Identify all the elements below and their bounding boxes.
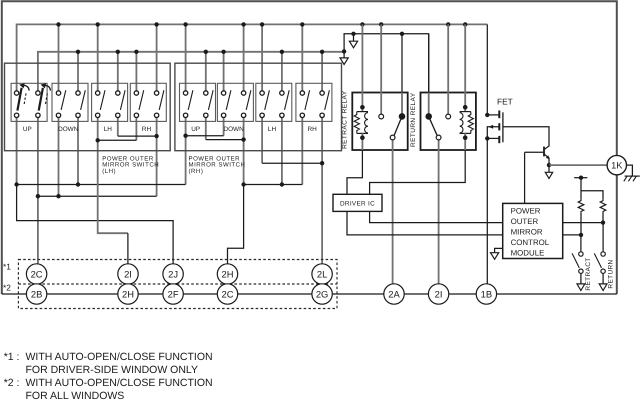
wire bus to switch RH2 (LH) xyxy=(156,24,158,90)
connector 2I (row 1) xyxy=(118,264,138,284)
connector 2B (row 2) xyxy=(26,284,46,304)
junction bus1 x=448.2 xyxy=(446,22,450,26)
svg-text:DOWN: DOWN xyxy=(58,126,79,133)
coil top junction RETRACT RELAY xyxy=(360,105,365,110)
svg-text::: : xyxy=(17,377,20,389)
svg-text::: : xyxy=(17,351,20,363)
svg-text:RETRACT: RETRACT xyxy=(585,257,592,290)
wire bus to switch D2 (RH) xyxy=(243,24,245,90)
wire line B xyxy=(38,195,157,197)
relay contacts RETURN RELAY xyxy=(447,93,449,115)
wire R2 to wire A junction xyxy=(602,212,604,222)
svg-text:RETRACT RELAY: RETRACT RELAY xyxy=(342,90,349,149)
junction bus3 x=402.0 xyxy=(400,32,404,36)
connector 2C (row 2) xyxy=(217,284,237,304)
switch contact UP1 (RH box) xyxy=(183,91,187,95)
junction link (16.6,184.5) xyxy=(14,182,18,186)
sub-box DOWN switch at x=233.6 xyxy=(217,83,253,121)
wire stub bus2 end to ground arrow xyxy=(343,51,345,58)
wire module top to transistor base xyxy=(524,152,526,203)
connector 2A (row 2) xyxy=(384,284,404,304)
wire bus2 (switch common) xyxy=(38,52,344,91)
wire link T LH1-RH2 (RH box) xyxy=(262,162,322,164)
wire emitter to 1K xyxy=(549,164,608,166)
junction emitter node xyxy=(547,163,551,167)
dashed separator line xyxy=(18,283,337,285)
ground arrow (module) xyxy=(491,253,499,260)
wire stub to ground arrow xyxy=(353,34,355,42)
svg-text:2L: 2L xyxy=(317,268,327,279)
svg-text:2H: 2H xyxy=(122,288,134,299)
relay coil RETRACT RELAY xyxy=(361,93,363,112)
transistor base lead xyxy=(525,151,544,153)
relay box RETRACT RELAY xyxy=(352,93,407,151)
coil bottom junction RETRACT RELAY xyxy=(360,135,365,140)
FET source lead xyxy=(487,137,499,139)
wire bus to switch D1 (LH) xyxy=(58,24,60,90)
svg-text:*2: *2 xyxy=(3,282,11,292)
switch contact LH2 (LH box) xyxy=(116,91,120,95)
svg-text:DOWN: DOWN xyxy=(223,126,244,133)
connector 1K ground point xyxy=(607,155,626,174)
svg-text:FOR DRIVER-SIDE WINDOW ONLY: FOR DRIVER-SIDE WINDOW ONLY xyxy=(26,364,198,376)
sub-box RH switch at x=146.5 xyxy=(130,83,166,121)
transistor Q1 (NPN) xyxy=(543,147,545,157)
ground arrow (RETURN) xyxy=(599,284,607,291)
wire retract coil to driver IC xyxy=(347,150,362,194)
junction link (185.6,135.7) xyxy=(183,134,187,138)
wire ground loop: left border, top border, down to 1K xyxy=(2,1,617,294)
svg-text:RETURN: RETURN xyxy=(608,259,615,288)
connector 2H (row 2) xyxy=(118,284,138,304)
wire link LH2-RH2 (LH box) xyxy=(118,135,157,137)
wire link LH1-RH1 (LH box) xyxy=(98,139,137,141)
wire bus to switch D1 (RH) xyxy=(223,52,225,91)
FET drain lead xyxy=(487,114,499,116)
wire 1K to chassis ground xyxy=(627,165,633,176)
wire emitter down xyxy=(548,158,550,165)
wire bus to switch LH2 (LH) xyxy=(117,52,119,91)
switch contact RH1 (LH box) xyxy=(134,91,138,95)
svg-text:2I: 2I xyxy=(124,268,132,279)
junction R1 / wire B xyxy=(579,233,583,237)
box POWER OUTER MIRROR SWITCH (LH) xyxy=(5,63,171,151)
wire branch to R2 xyxy=(581,191,603,200)
ground arrow (bus3) xyxy=(349,41,357,48)
svg-text:2H: 2H xyxy=(222,268,234,279)
wire UP1 RH down to line A xyxy=(185,118,187,185)
junction bus2 x=136.4 xyxy=(134,50,138,54)
wire tap to R1 xyxy=(580,178,582,200)
svg-text:POWER: POWER xyxy=(511,206,541,215)
sub-box UP switch at x=195.7 xyxy=(180,83,216,121)
box POWER OUTER MIRROR CONTROL MODULE xyxy=(503,203,563,258)
junction FET drain xyxy=(485,113,489,117)
relay coil RETURN RELAY xyxy=(464,93,466,112)
switch contact RH1 (RH box) xyxy=(300,91,304,95)
wire bus to switch LH1 (RH) xyxy=(261,24,263,90)
svg-text:(RH): (RH) xyxy=(189,168,204,175)
junction bus2 x=322.1 xyxy=(320,50,324,54)
junction link (156.6,136.1) xyxy=(154,134,158,138)
switch contact UP2 (LH box) xyxy=(36,91,40,95)
switch contact UP2 (RH box) xyxy=(204,91,208,95)
wire bus to switch UP2 (RH) xyxy=(205,52,207,91)
svg-text:FOR ALL WINDOWS: FOR ALL WINDOWS xyxy=(26,390,125,402)
svg-text:2A: 2A xyxy=(388,288,400,299)
wire LH2 LH down to link xyxy=(117,118,119,137)
svg-text:MIRROR: MIRROR xyxy=(511,228,543,237)
wire bus1 to retract coil xyxy=(361,24,363,92)
coil top junction RETURN RELAY xyxy=(463,105,468,110)
box DRIVER IC xyxy=(333,194,382,211)
wire FET gate to transistor collector xyxy=(503,127,549,146)
wire LH1 RH down to link T xyxy=(261,118,263,164)
wire bus to switch RH1 (LH) xyxy=(135,52,137,91)
wire RH1 RH down to segment S xyxy=(301,118,303,185)
switch contact UP1 (LH box) xyxy=(14,91,18,95)
wire FET source to connector 1B xyxy=(486,138,488,283)
connector 2C (row 1) xyxy=(26,264,46,284)
junction bus1 x=156.6 xyxy=(154,22,158,26)
wire drop into connector 2I xyxy=(127,233,129,264)
svg-text:2I: 2I xyxy=(435,288,443,299)
junction bus2 x=281.9 xyxy=(280,50,284,54)
svg-text:2F: 2F xyxy=(168,288,179,299)
junction link (243.6,139.6) xyxy=(241,137,245,141)
svg-text:RH: RH xyxy=(142,126,152,133)
wire to RETRACT switch xyxy=(580,235,582,252)
wire bottom bus through connector row 2 xyxy=(2,293,617,295)
wire bus3 to relay NC contacts xyxy=(344,34,429,114)
svg-text:WITH AUTO-OPEN/CLOSE FUNCTION: WITH AUTO-OPEN/CLOSE FUNCTION xyxy=(26,377,213,389)
wire bus1 to FET drain xyxy=(486,24,488,115)
junction bus1 x=465.2 xyxy=(463,22,467,26)
connector 2L (row 1) xyxy=(312,264,332,284)
svg-text:LH: LH xyxy=(268,126,277,133)
wire bus3 to return blade contact xyxy=(428,34,430,93)
FET body lead xyxy=(487,127,499,139)
svg-text:2C: 2C xyxy=(222,288,234,299)
wire bus1 to retract NO contact xyxy=(380,24,382,92)
junction bus3 x=353.5 xyxy=(351,32,355,36)
sub-box LH switch at x=107.8 xyxy=(92,83,128,121)
junction link (97.7,140.3) xyxy=(96,138,100,142)
wire D2 RH down to segment S xyxy=(243,118,245,185)
wire to RETURN switch xyxy=(602,223,604,252)
wire D2 LH down to line A xyxy=(77,118,79,185)
wire RH2 LH down to line B xyxy=(156,118,158,197)
svg-text:*1: *1 xyxy=(3,262,11,272)
sub-box LH switch at x=272.0 xyxy=(256,83,292,121)
wire bus1 to return coil xyxy=(464,24,466,92)
svg-text:2J: 2J xyxy=(168,268,178,279)
svg-text:2C: 2C xyxy=(31,268,43,279)
svg-text:*1: *1 xyxy=(4,351,14,363)
wire D1 LH down to line B xyxy=(58,118,60,197)
svg-text:RH: RH xyxy=(307,126,317,133)
junction R2 / wire A xyxy=(601,220,605,224)
switch contact D2 (RH box) xyxy=(241,91,245,95)
svg-text:(LH): (LH) xyxy=(102,168,116,175)
svg-text:MODULE: MODULE xyxy=(511,249,545,258)
switch contact RH2 (LH box) xyxy=(154,91,158,95)
junction bus1 x=381.2 xyxy=(379,22,383,26)
wire return coil to driver IC xyxy=(370,150,466,194)
wire bus to switch LH1 (LH) xyxy=(97,24,99,90)
junction bus2 x=78.0 xyxy=(76,50,80,54)
connector 2J (row 1) xyxy=(163,264,183,284)
switch contact D1 (RH box) xyxy=(221,91,225,95)
junction link (322.1,163.2) xyxy=(320,161,324,165)
connector 2H (row 1) xyxy=(217,264,237,284)
svg-text:FET: FET xyxy=(497,97,513,107)
switch contact D1 (LH box) xyxy=(56,91,60,95)
wire RH2 RH down to connector 2L xyxy=(321,118,323,264)
junction FET source xyxy=(485,136,489,140)
connector 2I (row 2) xyxy=(428,284,448,304)
wire segment S drop to connector 2H xyxy=(228,185,244,264)
wire link UP2-D2 (RH box) xyxy=(206,139,244,141)
svg-text:CONTROL: CONTROL xyxy=(511,238,550,247)
junction bus1 x=302.3 xyxy=(300,22,304,26)
junction bus1 x=362.4 xyxy=(360,22,364,26)
wire bus1 to return NO contact xyxy=(447,24,449,92)
junction link (281.9,184.5) xyxy=(280,182,284,186)
wire bus to switch LH2 (RH) xyxy=(281,52,283,91)
wire RETRACT to ground arrow xyxy=(580,273,582,284)
switch contact RH2 (RH box) xyxy=(320,91,324,95)
junction bus1 x=58.5 xyxy=(56,22,60,26)
junction link (78.0,184.5) xyxy=(76,182,80,186)
switch contact LH2 (RH box) xyxy=(280,91,284,95)
wire R1 to wire B junction xyxy=(580,212,582,235)
switch contact D2 (LH box) xyxy=(76,91,80,95)
junction bus1 x=185.6 xyxy=(183,22,187,26)
wire 1K bottom to bottom bus xyxy=(616,175,618,294)
ground arrow (bus2 end) xyxy=(340,58,348,65)
wire bus to switch UP1 (RH) xyxy=(185,24,187,90)
svg-text:LH: LH xyxy=(104,126,113,133)
wire return common to connector 2I xyxy=(438,150,440,284)
power tap symbol (dot with bar) xyxy=(574,177,587,179)
wire bus3 to retract blade contact xyxy=(401,34,403,93)
wire LH1 LH down to link xyxy=(97,118,99,141)
svg-text:UP: UP xyxy=(23,126,32,133)
svg-text:DRIVER IC: DRIVER IC xyxy=(340,200,375,207)
junction link (243.6,184.5) xyxy=(241,182,245,186)
wire retract common to connector 2A xyxy=(392,150,394,284)
switch contact LH1 (RH box) xyxy=(260,91,264,95)
svg-text:2B: 2B xyxy=(31,288,42,299)
relay contacts RETRACT RELAY xyxy=(380,93,382,115)
chassis ground xyxy=(625,175,640,177)
junction bus2 end xyxy=(342,49,346,53)
svg-text:OUTER: OUTER xyxy=(511,217,539,226)
junction bus1 x=262.1 xyxy=(260,22,264,26)
coil bottom junction RETURN RELAY xyxy=(463,135,468,140)
svg-text:*2: *2 xyxy=(4,377,14,389)
wire bus1 (battery feed to switch contacts) xyxy=(17,24,488,90)
connector 1B (row 2) xyxy=(476,284,496,304)
ground arrow (emitter) xyxy=(545,172,552,178)
wire stub emitter ground arrow xyxy=(548,165,550,172)
wire line C to connector 2J xyxy=(17,185,174,264)
auto switch blade with arrow UP1 xyxy=(17,88,21,111)
junction bus2 x=117.8 xyxy=(116,50,120,54)
wire B driver IC to module / R1 xyxy=(347,211,581,235)
wire link UP1-D1 (RH box) xyxy=(186,135,224,137)
sub-box UP switch at x=27.3 xyxy=(11,83,47,121)
wire bus to switch RH2 (RH) xyxy=(321,52,323,91)
wire line A xyxy=(17,184,186,186)
wire module ground stub xyxy=(495,248,503,252)
svg-text:1K: 1K xyxy=(611,161,623,171)
svg-text:1B: 1B xyxy=(481,288,492,299)
sub-box RH switch at x=312.1 xyxy=(296,83,332,121)
junction link (58.5,196.2) xyxy=(56,194,60,198)
wire LH2 RH down to segment S xyxy=(281,118,283,185)
wire RH1 LH down to link xyxy=(135,118,137,141)
junction link (37.9,196.2) xyxy=(36,194,40,198)
wire UP1 LH down to line A xyxy=(16,118,18,185)
switch contact LH1 (LH box) xyxy=(96,91,100,95)
sub-box DOWN switch at x=68.2 xyxy=(52,83,88,121)
wire LH1/RH1 net toward 2I xyxy=(98,140,128,233)
svg-text:UP: UP xyxy=(191,126,200,133)
junction bus1 x=243.6 xyxy=(241,22,245,26)
wire UP2 RH down to link xyxy=(205,118,207,140)
junction bus2 x=223.6 xyxy=(221,50,225,54)
junction bus2 x=205.8 xyxy=(204,50,208,54)
wire RETURN to ground arrow xyxy=(602,273,604,284)
ground arrow (RETRACT) xyxy=(577,284,585,291)
wire D1 RH down to link xyxy=(223,118,225,136)
connector 2F (row 2) xyxy=(163,284,183,304)
svg-text:2G: 2G xyxy=(316,288,329,299)
wire segment S (RH box) xyxy=(244,184,303,186)
junction bus1 x=97.7 xyxy=(96,22,100,26)
box POWER OUTER MIRROR SWITCH (RH) xyxy=(175,63,342,151)
wire bus to switch RH1 (RH) xyxy=(301,24,303,90)
relay box RETURN RELAY xyxy=(421,93,476,151)
wire UP2 LH down to connector 2C xyxy=(37,118,39,264)
dashed variant box xyxy=(18,260,337,309)
wire A driver IC to module / R2 xyxy=(370,211,603,222)
wire bus to switch D2 (LH) xyxy=(77,52,79,91)
svg-text:RETURN RELAY: RETURN RELAY xyxy=(410,92,417,147)
auto switch blade with arrow UP2 xyxy=(39,88,43,111)
svg-text:WITH AUTO-OPEN/CLOSE FUNCTION: WITH AUTO-OPEN/CLOSE FUNCTION xyxy=(26,351,213,363)
connector 2G (row 2) xyxy=(312,284,332,304)
